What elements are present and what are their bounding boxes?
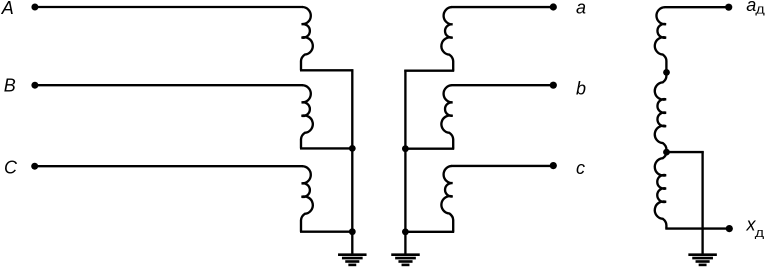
svg-text:Д: Д — [755, 5, 764, 17]
winding C (primary) — [301, 166, 313, 232]
wire a_d — [665, 6, 729, 8]
tap wire to ground lead — [666, 151, 703, 153]
auxiliary winding section 2 — [655, 72, 667, 152]
wire b — [451, 84, 553, 86]
terminal a — [550, 3, 557, 10]
junction dot (C to bus) — [349, 228, 356, 235]
neutral bus (primary star point) — [351, 69, 353, 253]
tap junction dot 1 — [663, 69, 670, 76]
wire A-bottom to neutral bus — [300, 69, 353, 71]
terminal x_d — [726, 225, 733, 232]
wire c-bottom to secondary bus — [405, 231, 454, 233]
wire b-bottom to secondary bus — [405, 148, 454, 150]
ground G1 — [338, 253, 367, 256]
winding b (secondary) — [441, 85, 453, 149]
auxiliary winding section 1 — [655, 7, 667, 72]
auxiliary winding section 3 — [655, 152, 667, 229]
svg-text:b: b — [576, 78, 586, 98]
terminal C — [31, 163, 38, 170]
wire B — [35, 84, 303, 86]
svg-text:a: a — [576, 0, 586, 18]
wire B-bottom to neutral bus — [300, 147, 352, 149]
junction dot (b to bus) — [402, 145, 409, 152]
ground G2 — [391, 253, 420, 256]
winding c (secondary) — [441, 166, 453, 232]
svg-text:Д: Д — [755, 228, 764, 240]
wire c — [451, 165, 553, 167]
ground G3 — [688, 253, 717, 256]
wire x_d (bottom) — [665, 227, 729, 229]
terminal B — [31, 82, 38, 89]
wire C — [35, 165, 303, 167]
winding B (primary) — [301, 85, 313, 148]
terminal b — [550, 82, 557, 89]
svg-text:c: c — [576, 158, 585, 178]
junction dot (c to bus) — [402, 228, 409, 235]
svg-text:A: A — [1, 0, 14, 18]
junction dot (B to bus) — [349, 145, 356, 152]
secondary neutral bus — [404, 70, 406, 254]
winding a (secondary) — [441, 7, 453, 71]
terminal c — [550, 162, 557, 169]
terminal A — [31, 4, 38, 11]
wire C-bottom to neutral bus — [300, 231, 352, 233]
wire a — [451, 6, 553, 8]
wire A — [35, 6, 303, 8]
svg-text:C: C — [4, 158, 18, 178]
svg-text:B: B — [4, 75, 16, 95]
winding A (primary) — [301, 7, 313, 70]
ground lead (vertical) — [701, 151, 703, 254]
terminal a_d — [725, 4, 732, 11]
wire a-bottom to secondary bus — [404, 70, 454, 72]
tap junction dot 2 — [663, 149, 670, 156]
